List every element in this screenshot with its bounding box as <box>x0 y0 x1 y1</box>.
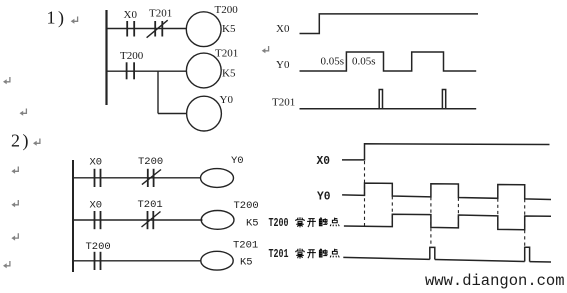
svg-text:T200: T200 <box>215 4 239 16</box>
X0 waveform <box>342 144 550 160</box>
svg-text:K5: K5 <box>246 218 259 230</box>
return mark row7 <box>11 233 18 240</box>
return mark left margin row3 <box>20 109 27 116</box>
CJK changkai-chudian T200 <box>296 217 304 227</box>
return mark left margin row2 <box>3 77 10 84</box>
T201 waveform <box>300 108 477 110</box>
svg-text:T200: T200 <box>269 216 289 230</box>
coil T201 <box>186 53 221 88</box>
contact X0 (NO) <box>95 169 101 187</box>
contact X0 (NO) <box>127 21 134 37</box>
contact X0 (NO) <box>95 211 101 229</box>
dashed guide x=392.3 <box>391 196 393 226</box>
svg-text:T200: T200 <box>138 156 163 168</box>
Y0 waveform <box>300 52 477 71</box>
return mark row6 <box>11 200 18 207</box>
wire rung3 <box>73 260 201 262</box>
return mark row8 <box>3 261 10 268</box>
svg-text:X0: X0 <box>317 154 331 168</box>
coil T200 <box>186 12 221 47</box>
T201 pulse 1 <box>379 90 382 109</box>
return mark after 1) <box>71 17 78 24</box>
contact T201 (NC) <box>147 20 168 38</box>
contact T200 (NO) <box>127 62 135 79</box>
svg-text:T201: T201 <box>149 8 172 20</box>
svg-text:T200: T200 <box>86 241 111 253</box>
svg-text:Y0: Y0 <box>317 190 331 204</box>
return mark after 2) <box>33 139 40 146</box>
wire rung2 <box>107 70 187 72</box>
T201 waveform <box>343 257 551 262</box>
dashed guide x=497.8 <box>497 199 499 230</box>
T201 pulse 1 <box>430 247 435 259</box>
X0 waveform <box>300 14 479 34</box>
svg-text:T201: T201 <box>272 97 295 109</box>
wire rung1 <box>73 177 201 179</box>
svg-text:www.diangon.com: www.diangon.com <box>425 272 565 290</box>
branch wire horizontal <box>158 113 186 115</box>
svg-text:T201: T201 <box>233 240 258 252</box>
contact T200 (NC) <box>142 169 161 187</box>
svg-text:T201: T201 <box>269 247 289 261</box>
svg-text:Y0: Y0 <box>220 94 234 106</box>
svg-text:X0: X0 <box>276 23 290 35</box>
svg-text:T200: T200 <box>120 50 144 62</box>
coil Y0 <box>187 96 222 131</box>
contact T201 (NC) <box>142 211 161 229</box>
wire rung2 <box>73 219 203 221</box>
left power rail <box>105 10 107 105</box>
coil T201 <box>201 251 233 270</box>
svg-text:X0: X0 <box>90 200 103 212</box>
T201 pulse 2 <box>525 247 530 261</box>
T200 waveform <box>344 214 551 229</box>
svg-text:T201: T201 <box>215 48 238 60</box>
svg-text:K5: K5 <box>240 257 253 269</box>
coil T200 <box>201 211 234 230</box>
svg-text:K5: K5 <box>222 68 236 80</box>
left power rail <box>72 160 74 272</box>
return mark near X0 timing label <box>262 46 269 53</box>
svg-text:X0: X0 <box>90 157 103 169</box>
Y0 waveform <box>342 183 551 199</box>
svg-text:Y0: Y0 <box>276 59 290 71</box>
svg-text:2): 2) <box>11 131 31 152</box>
svg-text:Y0: Y0 <box>231 155 244 167</box>
dashed guide x=458.7 <box>457 198 459 228</box>
dashed guide x=364.5 <box>364 161 366 226</box>
return mark row5 <box>11 167 18 174</box>
svg-text:0.05s: 0.05s <box>321 56 345 68</box>
svg-text:X0: X0 <box>124 9 138 21</box>
CJK changkai-chudian T201 <box>296 248 304 258</box>
contact T200 (NO) <box>95 252 101 270</box>
svg-text:K5: K5 <box>222 23 236 35</box>
dashed guide x=524.6 <box>524 199 526 247</box>
svg-text:0.05s: 0.05s <box>352 56 376 68</box>
wire rung1 <box>107 28 187 30</box>
dashed guide x=431.8 <box>430 197 432 247</box>
svg-text:1): 1) <box>47 8 67 29</box>
svg-text:T200: T200 <box>234 200 259 212</box>
coil Y0 <box>201 169 234 188</box>
svg-text:T201: T201 <box>138 199 163 211</box>
T201 pulse 2 <box>442 90 445 109</box>
branch wire vertical <box>157 71 159 113</box>
